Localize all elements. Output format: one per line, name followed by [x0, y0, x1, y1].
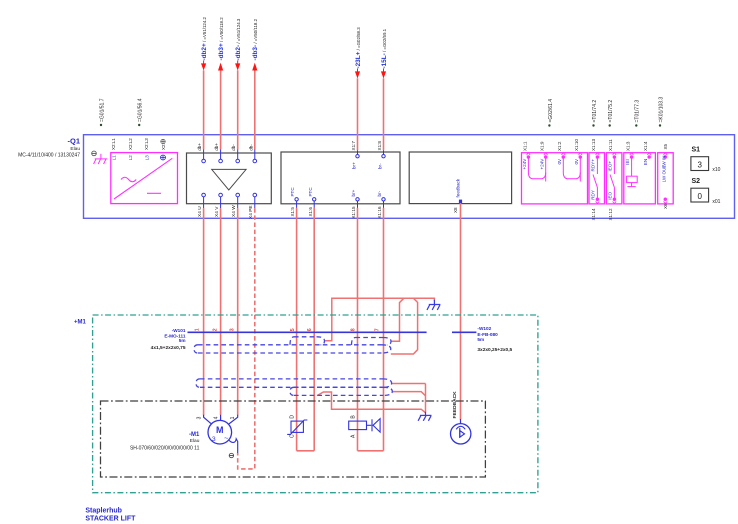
reference point =K01/103.3: [659, 124, 661, 126]
reference point =G01/51.7: [100, 124, 102, 126]
motor -M1 circle: [208, 420, 232, 444]
svg-text:3: 3: [229, 328, 235, 331]
pin X1:3 IEI: [630, 153, 634, 159]
svg-text:0V: 0V: [574, 158, 579, 165]
location frame +M1: [93, 315, 538, 493]
motor PE hook (blue): [229, 439, 238, 453]
shield drain inner pair (S-jog): [317, 392, 425, 413]
svg-text:5: 5: [290, 328, 296, 331]
shield overall screen W101 top line: [194, 345, 391, 353]
svg-text:X4 U: X4 U: [197, 206, 203, 217]
svg-text:C: C: [290, 434, 296, 438]
inverter triangle: [212, 169, 246, 190]
svg-text:1: 1: [230, 416, 236, 419]
IEI input network: line, block, bar: [627, 157, 638, 187]
svg-text:S1: S1: [692, 147, 701, 154]
reference point =T01/75.2: [609, 124, 611, 126]
svg-text:db+: db+: [214, 143, 219, 151]
svg-text:X1:7: X1:7: [351, 141, 356, 151]
pin X1:14: [596, 198, 600, 204]
svg-text:1: 1: [195, 328, 201, 331]
svg-text:=T01/75.2: =T01/75.2: [608, 100, 614, 123]
svg-text:6: 6: [307, 328, 313, 331]
RDY contact box: [589, 153, 605, 204]
svg-text:3: 3: [697, 160, 702, 169]
svg-text:X1:4: X1:4: [643, 141, 648, 151]
svg-text:+24V: +24V: [522, 158, 527, 170]
supply terminal box X1:1/9/2/10: [522, 153, 588, 204]
svg-text:-W102: -W102: [477, 326, 491, 331]
earth terminal circle at -Q1: [92, 151, 97, 156]
svg-text:X4 PE: X4 PE: [248, 205, 254, 219]
shield drain W102 pair 1: [392, 383, 426, 385]
thermistor (PTC) symbol: [287, 420, 307, 434]
svg-text:db-: db-: [231, 144, 236, 151]
svg-text:-23L+ / =G02/58.3: -23L+ / =G02/58.3: [355, 27, 362, 69]
pin 10 wire tail: [579, 173, 581, 182]
svg-text:IEO: IEO: [608, 191, 613, 199]
pin X1:2: [562, 153, 566, 159]
wire W (X4 W to motor): [237, 208, 239, 415]
svg-text:STACKER LIFT: STACKER LIFT: [85, 516, 136, 523]
cable line -W101: [188, 331, 427, 333]
svg-text:MC-4/11/10/400 / 13130247: MC-4/11/10/400 / 13130247: [18, 152, 80, 158]
svg-text:X6: X6: [663, 203, 668, 209]
svg-text:=G02/61.4: =G02/61.4: [548, 99, 554, 123]
RDY switch contact: [593, 157, 597, 199]
svg-text:X4 W: X4 W: [231, 205, 237, 217]
wire PE dashed (X4 PE down): [238, 208, 255, 469]
jumper bracket +24V pins 1-9: [528, 157, 545, 179]
ground bottom (shields W102): [418, 412, 431, 421]
svg-text:0: 0: [697, 192, 702, 201]
pin X1:13: [596, 153, 600, 159]
svg-text:br+: br+: [352, 162, 357, 169]
svg-text:X1:6: X1:6: [308, 207, 313, 217]
reference point =G02/61.4: [548, 124, 550, 126]
svg-text:X2:L1: X2:L1: [111, 138, 116, 150]
IEI / EN input box: [624, 153, 656, 204]
svg-text:=G01/56.4: =G01/56.4: [138, 98, 144, 122]
pin X6: [664, 198, 668, 204]
svg-text:X8: X8: [453, 207, 458, 213]
shield pair band W102: [290, 387, 392, 395]
arrow -db2+ (incoming): [201, 63, 206, 70]
svg-text:L2: L2: [128, 155, 133, 161]
top pins X1:7 X1:8: [356, 150, 385, 158]
svg-text:X1:10: X1:10: [574, 139, 579, 151]
svg-text:br+: br+: [351, 189, 356, 196]
svg-text:IEO+: IEO+: [608, 161, 613, 172]
inverter output stage box (triangle): [187, 153, 272, 204]
svg-text:L1: L1: [111, 155, 116, 161]
svg-text:db+: db+: [197, 143, 202, 151]
reference point =G01/56.4: [138, 124, 140, 126]
svg-text:M: M: [216, 425, 224, 435]
pin X5: [664, 153, 668, 159]
device frame -Q1 outline: [84, 135, 735, 219]
svg-text:SH-070/60/020/0/0/00/00/00 11: SH-070/60/020/0/0/00/00/00 11: [130, 445, 200, 451]
svg-text:X4 V: X4 V: [214, 206, 220, 217]
svg-text:=T01/77.3: =T01/77.3: [635, 100, 641, 123]
svg-text:-db3+ / =V50/118.2: -db3+ / =V50/118.2: [218, 17, 225, 61]
pin 9 wire tail: [545, 173, 547, 182]
svg-text:X1:5: X1:5: [290, 207, 295, 217]
svg-text:7: 7: [375, 328, 381, 331]
IEO contact box: [606, 153, 622, 204]
svg-text:X2:L3: X2:L3: [144, 138, 149, 150]
ground symbol magenta (PE of -Q1): [94, 154, 108, 164]
svg-text:PTC: PTC: [308, 187, 313, 197]
jumper bracket 0V pins 2-10: [563, 157, 580, 179]
wire -db2-: [237, 70, 239, 149]
svg-text:+24V: +24V: [540, 158, 545, 170]
reference point =T01/77.3: [635, 124, 637, 126]
pin X1:11: [613, 153, 617, 159]
svg-text:D: D: [290, 415, 296, 419]
converter diagonal: [114, 158, 172, 199]
svg-text:EN: EN: [643, 159, 648, 165]
svg-text:2: 2: [213, 328, 219, 331]
svg-text:X1:3: X1:3: [625, 141, 630, 151]
top pins of inverter box: db+ db+ db- db-: [202, 150, 257, 163]
svg-text:Elau: Elau: [70, 146, 80, 152]
svg-text:3: 3: [212, 436, 216, 443]
svg-text:br-: br-: [377, 190, 382, 196]
svg-text:+M1: +M1: [74, 319, 87, 325]
brake symbol: [349, 419, 380, 433]
svg-text:FEEDBACK: FEEDBACK: [452, 391, 458, 419]
svg-text:X1:2: X1:2: [557, 141, 562, 151]
pin X8 connector marker: [459, 200, 462, 203]
svg-text:-db2+ / =V51/124.2: -db2+ / =V51/124.2: [201, 16, 208, 60]
svg-text:X2:L2: X2:L2: [128, 138, 133, 150]
resolver / feedback symbol: [451, 424, 471, 444]
svg-text:8: 8: [351, 328, 357, 331]
cable line -W102: [452, 331, 476, 333]
svg-text:X2:: X2:: [161, 143, 166, 150]
ground top (shields W101): [427, 300, 440, 310]
wire U (X4 U to motor): [203, 208, 205, 415]
wire brake + (X1:15 to brake): [357, 208, 359, 451]
IEO switch contact: [610, 157, 614, 199]
pin label X2:PE earth glyph: [161, 139, 166, 144]
wire -23L+: [357, 78, 359, 150]
arrow -15L- (incoming): [381, 71, 386, 78]
svg-text:X5: X5: [663, 143, 668, 149]
thermistor loop bottom: [297, 450, 315, 452]
svg-text:E-FB-080: E-FB-080: [477, 332, 498, 337]
svg-text:-15L- / =G02/59.1: -15L- / =G02/59.1: [381, 28, 388, 68]
svg-text:X1:9: X1:9: [540, 141, 545, 151]
converter AC sign: [121, 177, 136, 182]
shield drain pair 5/6: [325, 298, 435, 341]
I/O box (PTC / brake): [281, 152, 400, 204]
bottom pins of inverter box: X4 U V W PE: [202, 193, 257, 208]
svg-text:LW OUT: LW OUT: [662, 165, 667, 183]
svg-text:RDY: RDY: [591, 190, 596, 200]
brake loop bottom: [358, 450, 384, 452]
svg-text:X1:12: X1:12: [608, 208, 613, 220]
shield stadium pair 5/6: [290, 337, 325, 345]
svg-text:feedback: feedback: [455, 178, 460, 197]
wire V (X4 V to motor): [220, 208, 222, 415]
svg-text:x10: x10: [712, 167, 720, 173]
svg-text:-Q1: -Q1: [67, 137, 80, 146]
svg-text:0V: 0V: [557, 158, 562, 165]
arrow -23L+ (incoming): [355, 71, 360, 78]
reference point =T01/74.2: [592, 124, 594, 126]
pin X1:10: [579, 153, 583, 159]
svg-text:4: 4: [214, 416, 220, 419]
svg-text:Staplerhub: Staplerhub: [85, 507, 122, 514]
wire -db3+: [220, 70, 222, 149]
svg-text:db-: db-: [248, 144, 253, 151]
svg-text:-db3- / =V50/118.2: -db3- / =V50/118.2: [252, 18, 259, 60]
feedback box X8: [409, 152, 511, 204]
svg-text:X1:1: X1:1: [522, 141, 527, 151]
shield overall screen W101 lower band: [196, 379, 392, 387]
wire -15L-: [383, 78, 385, 150]
motor unit frame (dash-dot): [101, 401, 486, 477]
svg-text:X1:15: X1:15: [351, 206, 356, 218]
pin X1:12: [613, 198, 617, 204]
wire -db2+: [203, 70, 205, 149]
wire PTC b (X1:6 to thermistor): [313, 208, 315, 451]
power supply unit (AC/DC converter) box: [111, 153, 178, 204]
shield stadium pair 8/7: [352, 338, 392, 346]
svg-text:X1:16: X1:16: [377, 206, 382, 218]
converter DC sign: [147, 192, 161, 194]
pin X1:1: [527, 153, 531, 159]
svg-text:-db2- / =V51/124.3: -db2- / =V51/124.3: [235, 18, 242, 60]
svg-text:IEI: IEI: [625, 159, 630, 165]
arrow -db2- (incoming): [235, 63, 240, 70]
svg-text:X1:14: X1:14: [591, 208, 596, 220]
svg-text:X1:11: X1:11: [608, 139, 613, 151]
svg-text:=G01/51.7: =G01/51.7: [99, 98, 105, 122]
arrow -db3- (outgoing): [252, 63, 257, 71]
shield drain W102 pair 2: [392, 392, 425, 396]
svg-text:S2: S2: [692, 178, 701, 185]
motor earth point glyph: [229, 453, 233, 457]
wire feedback (X8 to resolver): [460, 203, 462, 420]
svg-text:5m: 5m: [179, 338, 186, 343]
wire brake - (X1:16 to brake): [383, 208, 385, 451]
svg-text:RDY+: RDY+: [591, 159, 596, 172]
LW OUT / LW IN box: [658, 153, 674, 204]
svg-text:x01: x01: [712, 199, 720, 205]
shield drain pair 8/7: [391, 298, 404, 341]
shield drain vertical to lower ground: [425, 384, 427, 413]
svg-text:3: 3: [197, 416, 203, 419]
wire -db3-: [254, 70, 256, 149]
svg-text:X1:8: X1:8: [377, 141, 382, 151]
wire PTC a (X1:5 to thermistor): [296, 208, 298, 451]
svg-text:L3: L3: [144, 155, 149, 161]
svg-text:X1:13: X1:13: [591, 139, 596, 151]
svg-text:=T01/74.2: =T01/74.2: [592, 100, 598, 123]
svg-text:PTC: PTC: [290, 187, 295, 197]
svg-text:4x1,5+2x2x0,75: 4x1,5+2x2x0,75: [151, 345, 186, 351]
svg-text:~: ~: [224, 434, 229, 443]
arrow -db3+ (outgoing): [218, 63, 223, 71]
pin X1:4 EN: [647, 153, 651, 159]
svg-text:5m: 5m: [477, 337, 484, 342]
svg-text:-M1: -M1: [189, 432, 200, 438]
pin X1:9: [544, 153, 548, 159]
svg-text:br-: br-: [378, 163, 383, 169]
bottom pins X1:5 X1:6 X1:15 X1:16: [295, 198, 385, 208]
svg-text:3x2x0,25+2x0,5: 3x2x0,25+2x0,5: [477, 347, 512, 353]
shield drain overall screen W101: [391, 298, 418, 354]
svg-text:Elau: Elau: [190, 438, 200, 444]
svg-text:=K01/103.3: =K01/103.3: [658, 97, 664, 123]
pin name PE earth glyph blue: [161, 155, 166, 160]
